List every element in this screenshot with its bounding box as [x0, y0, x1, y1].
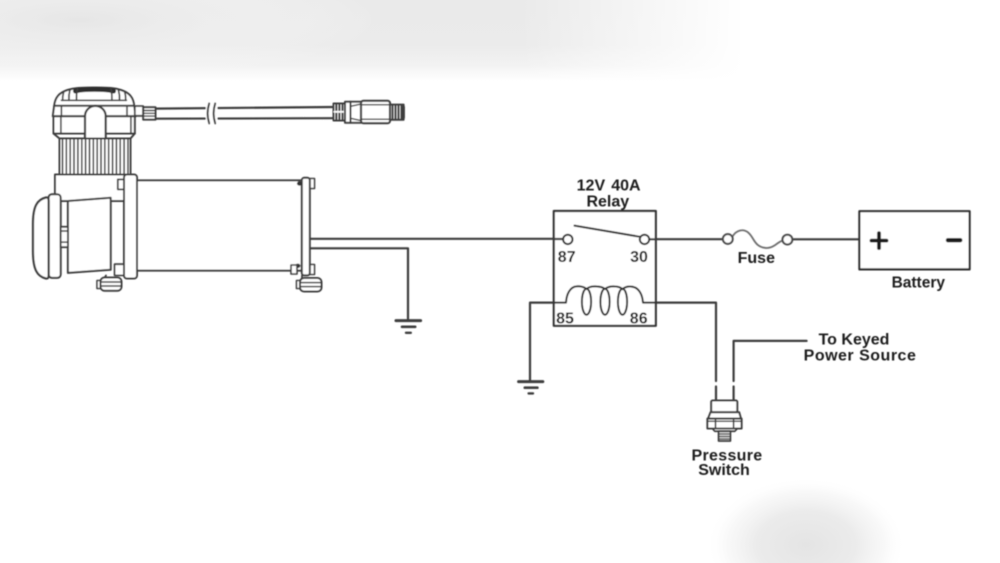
- compressor front bell rim: [49, 194, 61, 278]
- compressor crankcase block: [68, 198, 111, 273]
- relay wire stubs 87 / 30: [554, 238, 656, 241]
- svg-text:Battery: Battery: [892, 274, 946, 291]
- svg-text:Power Source: Power Source: [804, 348, 917, 365]
- svg-text:87: 87: [558, 249, 576, 266]
- compressor end plate: [310, 179, 315, 189]
- compressor leader hose: [155, 107, 334, 119]
- relay coil: [554, 286, 656, 314]
- relay terminal 30: [640, 235, 649, 244]
- compressor finned cylinder: [60, 139, 131, 175]
- compressor outlet port: [135, 106, 143, 116]
- svg-text:Relay: Relay: [586, 193, 629, 210]
- compressor right foot: [291, 265, 297, 274]
- svg-text:30: 30: [630, 249, 648, 266]
- compressor head collar: [53, 106, 136, 116]
- relay switch arm: [575, 226, 640, 237]
- fuse F1: [723, 230, 792, 248]
- wire fuse to battery: [792, 238, 860, 240]
- compressor bell tab: [61, 227, 68, 247]
- compressor left foot: [104, 276, 106, 279]
- battery + terminal: [872, 233, 887, 248]
- ground symbol (relay 85): [519, 382, 543, 394]
- relay terminal 87: [563, 235, 572, 244]
- svg-text:To Keyed: To Keyed: [819, 331, 890, 348]
- wire relay 85 to ground: [530, 303, 566, 381]
- compressor head block: [54, 116, 135, 133]
- wire keyed power source to pressure switch: [734, 341, 807, 381]
- compressor motor cylinder: [137, 180, 302, 270]
- compressor front bell lens: [33, 197, 49, 278]
- battery - terminal: [948, 238, 960, 242]
- compressor M1: [33, 88, 404, 292]
- pressure switch S1: [707, 401, 741, 442]
- ground symbol (compressor): [396, 321, 421, 333]
- svg-text:12V: 12V: [577, 178, 606, 195]
- wire compressor to relay terminal 87: [310, 238, 563, 240]
- wire relay 86 to pressure switch: [643, 303, 716, 381]
- compressor head arch: [85, 106, 106, 140]
- compressor mounting plate (front): [118, 179, 125, 189]
- relay U1 body: [554, 211, 656, 326]
- svg-text:85: 85: [556, 311, 574, 328]
- hose end fitting: [334, 101, 404, 123]
- battery B1: [859, 211, 969, 269]
- compressor air filter dome: [54, 88, 134, 107]
- wire relay 30 to fuse: [649, 238, 724, 240]
- svg-text:Switch: Switch: [698, 462, 750, 479]
- compressor crankcase band: [55, 175, 128, 202]
- wire compressor ground branch: [310, 248, 408, 318]
- hose break mark: [206, 101, 218, 124]
- svg-text:40A: 40A: [611, 178, 641, 195]
- svg-text:Fuse: Fuse: [738, 250, 775, 267]
- compressor cylinder skirt: [54, 134, 135, 139]
- svg-text:86: 86: [630, 311, 648, 328]
